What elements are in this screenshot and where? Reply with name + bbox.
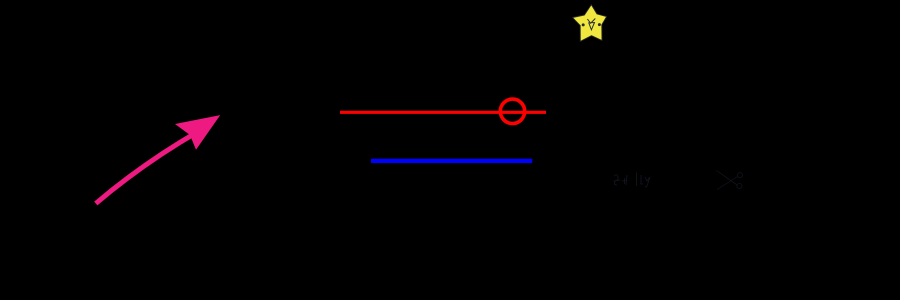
pink arrow head xyxy=(175,115,220,150)
blue line xyxy=(371,159,532,163)
red circle xyxy=(500,99,524,123)
faint scissors xyxy=(717,171,743,190)
faint dark text xyxy=(614,173,651,188)
star right eye xyxy=(598,23,601,26)
star mouth xyxy=(587,19,595,30)
red line xyxy=(340,111,546,114)
pink arrow shaft xyxy=(96,131,199,204)
yellow star body xyxy=(573,5,607,42)
star left eye xyxy=(582,23,585,26)
